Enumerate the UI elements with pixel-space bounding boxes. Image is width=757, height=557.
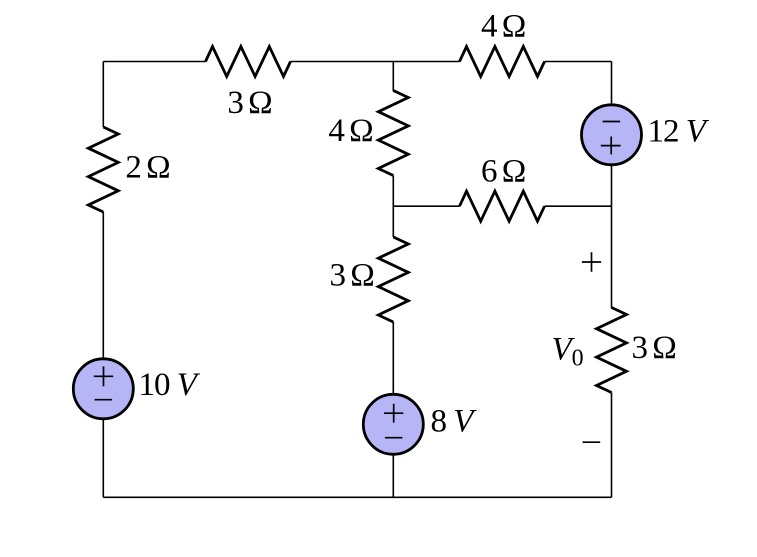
plus sign inside 10V — [94, 366, 113, 386]
resistor R 4ohm top — [460, 47, 545, 77]
wire bottom segment — [103, 496, 611, 498]
wire right middle segment — [611, 206, 613, 308]
source V 8V circle — [363, 394, 423, 454]
source V 12V circle — [582, 105, 642, 165]
wire 6ohm branch left segment — [393, 205, 459, 207]
svg-text:2 Ω: 2 Ω — [125, 150, 169, 186]
svg-text:12 V: 12 V — [648, 114, 710, 150]
plus sign V0 polarity — [582, 252, 601, 271]
svg-text:4 Ω: 4 Ω — [481, 9, 525, 45]
resistor R 3ohm right — [597, 308, 627, 393]
wire middle vertical top segment — [392, 62, 394, 92]
resistor R 2ohm left — [88, 127, 118, 212]
resistor R 3ohm top — [206, 47, 291, 77]
plus sign inside 8V — [384, 404, 403, 423]
wire right segment below 12V — [611, 165, 613, 207]
plus sign inside 12V — [601, 137, 621, 155]
svg-text:3 Ω: 3 Ω — [227, 85, 271, 121]
wire top-middle segment — [291, 61, 460, 63]
wire right bottom segment — [611, 393, 613, 498]
wire left middle segment — [102, 212, 104, 358]
svg-text:6 Ω: 6 Ω — [481, 154, 525, 190]
minus sign inside 12V — [603, 121, 621, 123]
svg-text:V0: V0 — [552, 332, 584, 372]
wire middle vertical segment below 3ohm — [392, 322, 394, 394]
source V 10V circle — [73, 359, 133, 419]
wire left top segment — [102, 62, 104, 128]
wire 6ohm branch right segment — [545, 205, 612, 207]
wire right top segment — [611, 62, 613, 106]
svg-text:8 V: 8 V — [431, 404, 478, 440]
minus sign V0 polarity — [583, 441, 601, 443]
wire top-right segment — [545, 61, 612, 63]
wire middle vertical bottom segment — [392, 455, 394, 497]
wire top-left segment — [103, 61, 205, 63]
svg-text:4 Ω: 4 Ω — [328, 113, 372, 149]
svg-text:3 Ω: 3 Ω — [330, 258, 374, 294]
resistor R 6ohm — [460, 191, 545, 221]
wire middle vertical segment between 4ohm and 3ohm — [392, 176, 394, 238]
wire left bottom segment — [102, 419, 104, 497]
minus sign inside 10V — [95, 399, 113, 401]
svg-text:10 V: 10 V — [139, 367, 201, 403]
svg-text:3 Ω: 3 Ω — [632, 330, 676, 366]
resistor R 4ohm middle — [378, 91, 408, 176]
minus sign inside 8V — [385, 437, 403, 439]
resistor R 3ohm middle — [378, 237, 408, 322]
